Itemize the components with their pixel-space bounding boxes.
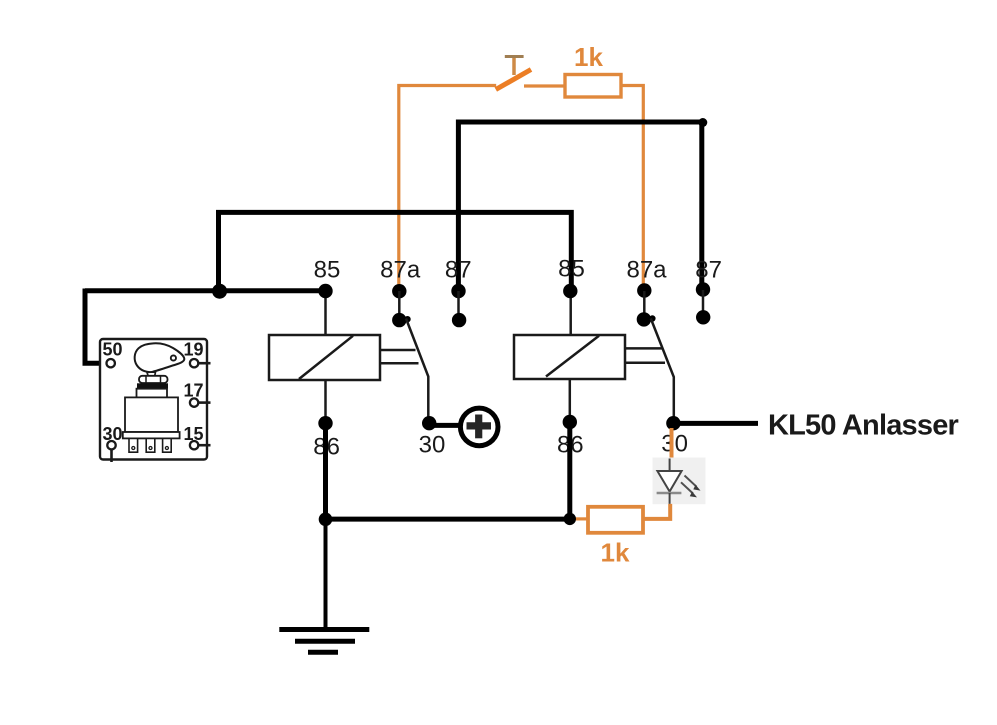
terminal node relay K1 85 — [318, 284, 332, 298]
wire relay K2 coil bottom lead — [569, 379, 572, 420]
wire relay K2 86 down to ground bus junction — [567, 424, 572, 519]
terminal node relay K2 85 — [563, 284, 577, 298]
wire orange pushbutton feed (left vertical + top horizontal to switch) — [399, 86, 496, 289]
terminal node relay K2 30 — [666, 416, 680, 430]
relay K2 coil diagonal — [546, 336, 599, 377]
terminal node relay K1 30 — [422, 416, 436, 430]
terminal node relay K1 87a upper — [392, 284, 406, 298]
wire black ground bus — [323, 517, 570, 522]
terminal node relay K2 87 lower — [696, 310, 710, 324]
wire relay K2 87a link — [643, 291, 646, 319]
relay K1 moving contact lever — [406, 319, 428, 421]
wire ground drop — [324, 521, 328, 630]
svg-text:17: 17 — [183, 381, 203, 401]
relay K2 coil box — [514, 335, 625, 379]
ignition switch key graphic — [135, 343, 185, 377]
ignition switch S2 body box — [100, 339, 207, 460]
wire relay K1 87 link — [457, 291, 460, 320]
svg-text:87: 87 — [695, 257, 722, 284]
relay K2 actuator link lines — [625, 348, 665, 362]
relay K1 actuator link lines — [380, 350, 419, 363]
svg-text:19: 19 — [183, 340, 203, 360]
relay K1 coil box — [269, 335, 380, 380]
wire orange switch to resistor R1 — [524, 84, 565, 87]
wire relay K1 87a link — [398, 291, 401, 320]
terminal node relay K2 87a upper — [637, 283, 651, 297]
pushbutton S1 actuator cap — [505, 55, 524, 58]
plus supply symbol circle — [460, 408, 498, 446]
wire orange resistor R2 to ground junction — [572, 517, 588, 520]
terminal node relay K1 86 — [318, 416, 332, 430]
terminal node relay K2 87a lower (contact pivot) — [637, 312, 651, 326]
LED D1 symbol — [657, 459, 682, 504]
svg-text:50: 50 — [102, 340, 122, 360]
svg-text:87a: 87a — [380, 257, 421, 284]
ignition switch barrel graphic — [123, 376, 180, 452]
contact pivot nub relay K1 — [404, 316, 410, 322]
LED D1 emission arrows — [681, 476, 701, 498]
LED D1 background highlight — [653, 458, 706, 505]
svg-text:1k: 1k — [601, 538, 630, 568]
wire black 85 bus down to ignition switch pin 50 — [85, 289, 107, 364]
ignition switch pin 17 stub — [190, 398, 211, 406]
junction node on 85 bus — [212, 284, 227, 299]
svg-text:30: 30 — [419, 432, 446, 459]
wire relay K1 86 down to ground bus — [323, 425, 328, 519]
terminal node relay K2 86 — [563, 415, 577, 429]
svg-text:15: 15 — [183, 424, 203, 444]
contact pivot nub relay K2 — [649, 315, 655, 321]
terminal node relay K2 87 upper — [696, 282, 710, 296]
ignition switch pin 30 stub — [107, 441, 115, 462]
svg-text:87: 87 — [445, 257, 472, 284]
svg-text:30: 30 — [102, 424, 122, 444]
svg-text:85: 85 — [314, 257, 341, 284]
wire relay K2 coil top lead — [569, 295, 572, 335]
ground symbol — [279, 630, 369, 653]
wire black 85 bridge (left vertical, across, down to relay K2 85) — [219, 212, 572, 288]
wire orange LED to resistor R2 — [643, 504, 670, 519]
svg-text:KL50 Anlasser: KL50 Anlasser — [768, 410, 959, 442]
wire relay K2 30 to KL50 — [678, 421, 758, 426]
junction node ground bus left — [319, 513, 333, 527]
pushbutton S1 actuator stem — [512, 57, 516, 75]
wire relay K1 coil top lead — [324, 295, 327, 335]
terminal node relay K1 87 lower — [452, 313, 466, 327]
wire black 87 bridge (relay K1 87 up, across, down to relay K2 87) — [458, 122, 701, 288]
relay K1 coil diagonal — [299, 336, 353, 379]
wire relay K1 coil bottom lead — [324, 380, 327, 420]
ignition switch pin 50 stub — [107, 359, 115, 367]
junction node ground bus right — [564, 513, 576, 525]
wire orange resistor R1 to relay K2 87a — [621, 86, 643, 289]
wire black 85 bus to relay K1 85 — [85, 288, 322, 293]
relay K2 moving contact lever — [651, 319, 674, 421]
ignition switch pin 15 stub — [190, 441, 211, 449]
svg-text:85: 85 — [558, 256, 585, 283]
wire relay K2 87 link — [702, 290, 705, 317]
terminal node relay K1 87 upper — [451, 284, 465, 298]
terminal node relay K1 87a lower (contact pivot) — [392, 313, 406, 327]
svg-text:1k: 1k — [574, 42, 603, 72]
ignition switch pin 19 stub — [190, 359, 211, 367]
plus supply symbol cross — [467, 415, 492, 439]
junction nub at 87 bridge top right corner — [698, 118, 707, 127]
svg-text:30: 30 — [661, 431, 688, 458]
wire relay K1 30 to plus supply — [434, 423, 459, 428]
resistor R2 body — [588, 507, 643, 533]
pushbutton S1 lever — [496, 70, 531, 90]
svg-text:87a: 87a — [626, 257, 667, 284]
resistor R1 body — [565, 75, 621, 98]
wire orange relay K2 30 down to LED — [670, 428, 674, 459]
